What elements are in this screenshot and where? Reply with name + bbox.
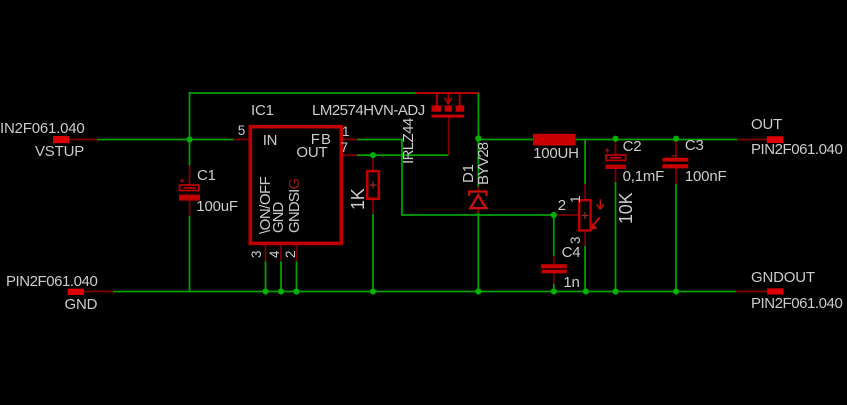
pin number 3 rotated: [250, 251, 264, 258]
pin pot pin1 stub: [584, 184, 586, 199]
junction ground C3: [673, 288, 679, 294]
capacitor C3 name: [685, 138, 704, 153]
wire VSTUP input horizontal: [97, 139, 234, 141]
junction ground D1: [475, 288, 481, 294]
wire FB pin1 horizontal: [357, 139, 403, 141]
junction ground pin4: [278, 288, 284, 294]
pad IN2F061.040 VSTUP: [53, 136, 69, 143]
transistor Q1 IRLZ44 top bar: [416, 92, 478, 94]
wire C4 branch lower: [553, 284, 555, 292]
capacitor C3 value 100nF: [685, 169, 727, 184]
wire ground rail horizontal: [113, 291, 736, 293]
node IN2F061.040 label: [0, 121, 85, 136]
pin C4 bottom stub: [553, 273, 555, 284]
node OUT label: [751, 117, 782, 132]
pin IC1.3 stub: [265, 245, 267, 262]
potentiometer R2 origin cross: [582, 212, 589, 219]
junction ground pot: [583, 288, 589, 294]
junction ground C4: [551, 288, 557, 294]
junction FB wiper C4 node: [551, 212, 557, 218]
node GNDOUT label: [751, 270, 815, 285]
wire GNDOUT pad stub: [736, 291, 767, 293]
pad GNDOUT PIN2F061.040: [767, 288, 783, 294]
wire IC pin3 vertical: [265, 262, 267, 293]
capacitor C1 plate dash: [184, 187, 196, 189]
capacitor C1 negative plate: [179, 195, 200, 201]
pin C3 top stub: [675, 140, 677, 158]
wire pot pin1 vertical: [584, 140, 586, 185]
node PIN2F061.040 bottom-left label: [6, 274, 97, 289]
node GND label: [65, 297, 98, 312]
wire FB to wiper horizontal: [402, 214, 554, 216]
capacitor C2 name: [623, 139, 642, 154]
wire inductor to OUT pad: [576, 139, 738, 141]
pin Q1 gate stub: [448, 118, 450, 156]
pin C3 bottom stub: [675, 168, 677, 184]
junction switch node: [475, 135, 481, 141]
wire top rail horizontal: [189, 92, 416, 94]
capacitor C2 positive plate: [606, 155, 626, 160]
pad PIN2F061.040 GND: [68, 289, 84, 295]
wire IC pin4 vertical: [280, 262, 282, 293]
capacitor C1 plus mark: [180, 179, 184, 183]
transistor Q1 right finger: [459, 93, 461, 106]
transistor Q1 substrate arrow: [445, 93, 452, 104]
wire 1K lower: [372, 214, 374, 292]
transistor Q1 source block: [432, 106, 442, 112]
junction C3 top: [673, 136, 679, 142]
capacitor C4 bottom plate: [542, 270, 567, 274]
pad OUT PIN2F061.040: [767, 136, 784, 143]
diode D1 name rotated: [461, 165, 476, 184]
junction ground C2: [612, 288, 618, 294]
capacitor C1 name: [197, 168, 216, 183]
pin C4 top stub: [553, 256, 555, 264]
potentiometer pin number 2: [558, 198, 566, 213]
pin number 1: [342, 125, 349, 139]
wire C1 branch lower: [189, 216, 191, 292]
resistor R1 origin cross: [370, 182, 377, 189]
wire C4 branch upper: [553, 215, 555, 256]
pin R1 bottom stub: [372, 200, 374, 214]
pin C2 bottom stub: [615, 169, 617, 182]
pin number 5: [238, 124, 245, 138]
pin C2 top stub: [615, 140, 617, 155]
diode D1 triangle: [470, 195, 486, 208]
transistor Q1 gate plate: [432, 115, 465, 118]
node VSTUP label: [35, 144, 84, 159]
junction C2 top: [612, 136, 618, 142]
pin D1 anode stub: [477, 209, 479, 213]
capacitor C2 value 0,1mF: [623, 169, 665, 184]
potentiometer R2 value 10K rotated: [617, 192, 635, 223]
pin IC1.5 stub: [234, 139, 249, 141]
pin C1 bottom stub: [189, 201, 191, 216]
pin number 7: [341, 141, 348, 155]
wire D1 upper: [477, 139, 479, 187]
potentiometer R2 wiper arrow tip: [590, 223, 597, 230]
wire OUT pad stub: [737, 139, 767, 141]
pin number 2 rotated: [284, 251, 298, 258]
wire C2 lower: [615, 182, 617, 292]
pin IC1.2 stub: [296, 245, 298, 262]
wire FB vertical: [401, 139, 403, 216]
pin label IN: [263, 133, 278, 148]
wire IC pin2 vertical: [296, 262, 298, 293]
pin IC1.1 stub: [343, 139, 357, 141]
potentiometer R2 wiper arrow shaft: [594, 217, 599, 224]
wire OUT pin7 horizontal: [357, 154, 449, 156]
pin R1 top stub: [372, 155, 374, 170]
transistor Q1 value IRLZ44 rotated: [401, 118, 416, 164]
capacitor C4 value 1n: [563, 275, 579, 290]
pin number 4 rotated: [268, 251, 282, 258]
pin label GND rotated: [271, 202, 286, 232]
inductor L1 100UH body: [533, 134, 576, 146]
node PIN2F061.040 top-right label: [751, 142, 842, 157]
capacitor C3 bottom plate: [662, 164, 688, 168]
potentiometer R2 wiper arrow head: [597, 199, 604, 209]
pin pot wiper stub: [554, 214, 578, 216]
pin IC1.4 stub: [280, 245, 282, 262]
wire top rail left vertical: [189, 92, 191, 139]
op-amp U1 IC1 LM2574HVN-ADJ body: [250, 127, 341, 244]
capacitor C2 negative plate: [605, 165, 626, 169]
capacitor C2 plate dash: [610, 157, 622, 159]
transistor Q1 drain block: [456, 106, 465, 112]
pin D1 cathode stub: [477, 187, 479, 192]
pin label ON/OFF rotated: [258, 177, 273, 234]
junction ground pin2: [293, 288, 299, 294]
capacitor C1 value 100uF: [196, 199, 238, 214]
pin C1 top stub: [189, 166, 191, 185]
diode D1 value BYV28 rotated: [476, 143, 491, 185]
potentiometer pin number 3 rotated: [569, 237, 583, 244]
wire input pad stub: [69, 139, 97, 141]
wire switch node vertical: [477, 92, 479, 138]
pin label OUT: [296, 145, 327, 160]
wire GND-left pad stub: [84, 291, 113, 293]
diode D1 BYV28 cathode bar: [469, 192, 486, 196]
node PIN2F061.040 bottom-right label: [751, 296, 842, 311]
transistor Q1 body block: [445, 106, 452, 112]
transistor Q1 left finger: [436, 93, 438, 106]
inductor L1 value 100UH: [533, 146, 579, 161]
wire pot pin3 to ground: [584, 246, 586, 292]
capacitor C1 positive plate: [180, 185, 199, 191]
resistor R1 1K body: [367, 171, 379, 199]
resistor R1 value 1K rotated: [349, 189, 367, 211]
junction ground pin3: [262, 288, 268, 294]
wire C3 lower: [675, 184, 677, 292]
pin IC1.7 stub: [343, 154, 357, 156]
capacitor C2 plus mark: [605, 148, 610, 153]
potentiometer pin number 1 rotated: [569, 195, 583, 202]
capacitor C4 name: [562, 245, 581, 260]
op-amp U1 value LM2574HVN-ADJ: [312, 103, 425, 118]
wire C1 branch upper: [189, 140, 191, 166]
wire switch node to inductor: [478, 139, 533, 141]
potentiometer R2 10K body: [579, 200, 590, 230]
capacitor C3 origin tick: [672, 155, 677, 157]
pin label GNDSIG rotated: [287, 178, 302, 232]
pin label FB: [311, 132, 332, 147]
capacitor C3 top plate: [662, 158, 688, 162]
junction ground R1: [370, 288, 376, 294]
wire D1 lower to ground: [477, 213, 479, 292]
capacitor C4 top plate: [541, 264, 567, 268]
op-amp U1 name IC1: [251, 103, 274, 118]
junction input node: [186, 136, 192, 142]
pin pot pin3 stub: [584, 232, 586, 246]
junction OUT pin7 and R1: [370, 152, 376, 158]
